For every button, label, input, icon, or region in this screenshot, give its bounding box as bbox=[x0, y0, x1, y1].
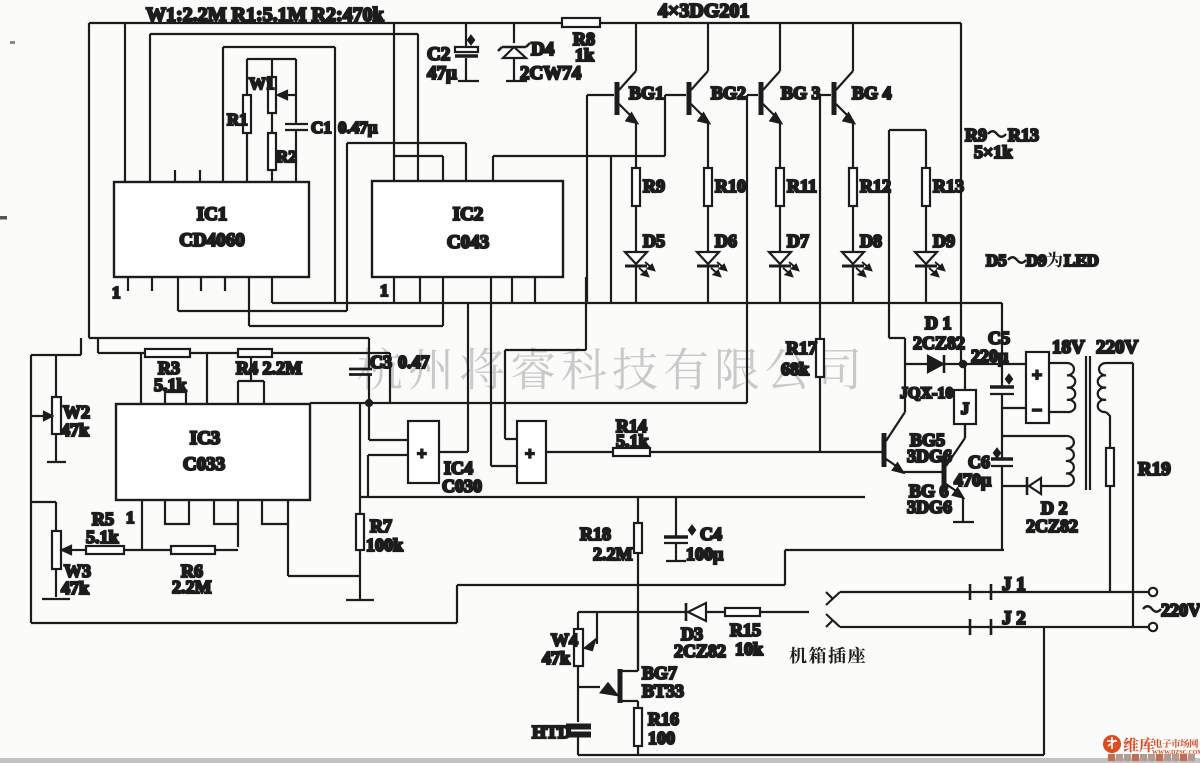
wire D5 to ground bus bbox=[635, 265, 637, 303]
LED D9 bbox=[915, 252, 937, 264]
wire BG7 lower base bbox=[622, 701, 638, 708]
svg-text:R13: R13 bbox=[1008, 125, 1039, 145]
wire R13 to D9 bbox=[925, 206, 927, 252]
diode D2 bbox=[1026, 477, 1029, 495]
bottom bus y755 bbox=[578, 754, 1044, 756]
zener diode D4 bbox=[498, 43, 530, 51]
wire R15 to socket pin bbox=[760, 611, 809, 613]
svg-text:D8: D8 bbox=[860, 231, 882, 251]
transistor BG1 bbox=[615, 82, 620, 115]
transistor Q7 (BG7 BT33) bbox=[618, 669, 623, 703]
svg-text:C1: C1 bbox=[311, 118, 332, 137]
wire R1 bottom lead to IC1 bbox=[246, 133, 248, 182]
wire C5 to bridge bottom bbox=[1002, 407, 1026, 409]
logo 维库电子市场网 bbox=[1103, 735, 1200, 761]
wire y143 left leg down to staircase bbox=[346, 143, 348, 311]
bus left riser bbox=[271, 291, 273, 303]
svg-text:5.1k: 5.1k bbox=[86, 527, 119, 547]
resistor R14 bbox=[613, 448, 650, 456]
svg-text:R15: R15 bbox=[730, 620, 761, 640]
svg-text:D 1: D 1 bbox=[925, 313, 952, 333]
wire y143 right leg to IC2 bbox=[465, 143, 467, 181]
transistor BG4 bbox=[832, 82, 837, 115]
capacitor C5 bbox=[990, 385, 1014, 388]
svg-text:BG2: BG2 bbox=[711, 83, 746, 103]
resistor R13 bbox=[922, 168, 930, 206]
op-amp U4b (IC4 comparator B) bbox=[517, 421, 546, 483]
IC U2 (IC2 C043) box bbox=[372, 181, 563, 277]
svg-text:100μ: 100μ bbox=[686, 544, 723, 564]
logo text weiku bbox=[1124, 737, 1139, 752]
wire R7 top column bbox=[359, 403, 361, 514]
svg-text:47k: 47k bbox=[542, 648, 570, 668]
pin stub of IC2 at x420 bbox=[419, 277, 421, 303]
svg-text:5×1k: 5×1k bbox=[974, 142, 1012, 162]
svg-text:2CW74: 2CW74 bbox=[520, 63, 582, 84]
label socket ji-xiang-cha-zuo bbox=[789, 647, 806, 664]
svg-text:R16: R16 bbox=[648, 709, 679, 729]
svg-text:C043: C043 bbox=[447, 232, 489, 253]
svg-text:10k: 10k bbox=[735, 639, 763, 659]
svg-text:220V: 220V bbox=[1161, 600, 1200, 620]
svg-text:1k: 1k bbox=[575, 45, 594, 65]
wire R1 top lead bbox=[246, 59, 248, 95]
wire D9 to ground bus bbox=[925, 265, 927, 303]
svg-text:−: − bbox=[1032, 400, 1042, 420]
wire y143 link line bbox=[347, 142, 466, 144]
pin stub of IC1 at x225 bbox=[224, 277, 226, 291]
resistor R10 bbox=[704, 168, 712, 206]
resistor R3 bbox=[145, 349, 190, 357]
resistor R19 bbox=[1106, 448, 1114, 486]
resistor R9 bbox=[632, 168, 640, 206]
wire W4 top lead bbox=[577, 612, 579, 629]
svg-text:R19: R19 bbox=[1138, 459, 1171, 480]
label character wei of D5-D9 LED note bbox=[1047, 252, 1063, 268]
svg-text:IC3: IC3 bbox=[190, 428, 221, 449]
svg-text:IC1: IC1 bbox=[197, 204, 228, 225]
potentiometer W2 bbox=[52, 397, 61, 434]
svg-text:C030: C030 bbox=[442, 476, 482, 496]
resistor R11 bbox=[776, 168, 784, 206]
svg-text:47k: 47k bbox=[61, 420, 89, 440]
svg-text:BT33: BT33 bbox=[642, 681, 684, 701]
svg-text:D7: D7 bbox=[787, 231, 809, 251]
wire bridge to top winding bbox=[1049, 363, 1067, 412]
contact marks of J1 bbox=[970, 584, 991, 600]
plus mark of C6 bbox=[994, 449, 1000, 457]
plus mark of C2 bbox=[468, 36, 474, 44]
resistor R16 bbox=[634, 708, 642, 746]
wire W1 wiper feed bbox=[295, 59, 297, 95]
pin stub of IC2 at x535 bbox=[534, 277, 536, 303]
staircase wire y326 bbox=[249, 277, 443, 326]
svg-text:D6: D6 bbox=[715, 231, 737, 251]
wire C6 bottom column bbox=[1001, 466, 1003, 550]
wire J2 drop to bottom bus bbox=[1043, 627, 1045, 755]
wire R5 to R6 bbox=[124, 549, 171, 551]
wire nested rail 3 bbox=[223, 46, 335, 48]
transistor Q6 (BG6 3DG6) bbox=[942, 458, 947, 492]
wire BG6 emitter down bbox=[962, 497, 964, 521]
resistor R4 bbox=[238, 349, 272, 357]
svg-text:BG 3: BG 3 bbox=[781, 83, 821, 103]
wire W1 cluster top bar bbox=[247, 58, 296, 60]
wire BG2 base horizontal bbox=[665, 94, 686, 96]
IC3 top pin loop bbox=[165, 392, 186, 404]
plug blade of J2 bbox=[826, 614, 840, 627]
svg-text:47μ: 47μ bbox=[427, 63, 457, 84]
svg-text:JQX-10: JQX-10 bbox=[900, 385, 953, 402]
label ~220V tilde bbox=[1143, 606, 1161, 612]
svg-text:LED: LED bbox=[1064, 251, 1099, 270]
bottom scan band bbox=[0, 758, 1200, 763]
LED D7 bbox=[769, 252, 791, 264]
wire top rail left segment bbox=[89, 22, 562, 24]
staircase wire y311 bbox=[178, 310, 347, 312]
svg-text:D5: D5 bbox=[643, 231, 665, 251]
wire R10 to D6 bbox=[707, 206, 709, 252]
wire relay to BG6 collector bbox=[964, 424, 966, 438]
transformer core bbox=[1086, 356, 1090, 490]
wire D2 line bbox=[1002, 485, 1066, 487]
wire C2 bottom lead bbox=[465, 58, 467, 80]
svg-text:0.47μ: 0.47μ bbox=[338, 118, 378, 137]
svg-text:R12: R12 bbox=[860, 176, 891, 196]
wire W2 top lead bbox=[55, 355, 57, 397]
svg-text:J 1: J 1 bbox=[1002, 574, 1026, 595]
plus mark of C5 bbox=[1006, 375, 1012, 383]
wire top rail right segment bbox=[600, 22, 961, 24]
wire R13 top bracket bbox=[889, 130, 926, 168]
wire C5 bottom lead bbox=[1001, 394, 1003, 408]
IC3 bottom pin loop 3 bbox=[262, 500, 288, 524]
wire R9 to D5 bbox=[635, 206, 637, 252]
svg-text:IC2: IC2 bbox=[453, 204, 484, 225]
wire x611 column to bus bbox=[610, 156, 612, 303]
capacitor C2 bbox=[455, 47, 478, 52]
wire BG7 upper base bbox=[622, 612, 638, 671]
wire BG1 base column x587 bbox=[586, 95, 588, 303]
wire W4 bottom lead bbox=[577, 666, 579, 722]
wire lower winding top link bbox=[1002, 435, 1066, 437]
resistor R18 bbox=[634, 523, 642, 553]
svg-text:+: + bbox=[525, 444, 535, 463]
resistor R2 bbox=[268, 133, 276, 170]
svg-text:D9: D9 bbox=[1026, 251, 1047, 270]
comparator B lower input drop x491 bbox=[491, 277, 517, 466]
wire R7 bottom lead bbox=[359, 550, 361, 599]
resistor R5 bbox=[86, 546, 124, 554]
watermark 杭州将睿科技有限公司 bbox=[358, 347, 401, 390]
junction dot at C3 node bbox=[366, 400, 372, 406]
wire left box edge x31 bbox=[30, 355, 32, 623]
pin stub of IC2 at x394 bbox=[393, 277, 395, 303]
wire vertical feed x125 to IC1 bbox=[124, 23, 126, 182]
capacitor C1 bbox=[285, 124, 308, 130]
wire C4 bottom lead bbox=[675, 543, 677, 560]
terminal bar under R7 bbox=[346, 599, 374, 601]
svg-text:W4: W4 bbox=[551, 630, 578, 650]
wire R11 to D7 bbox=[779, 206, 781, 252]
op-amp U4a (IC4 comparator A) bbox=[408, 421, 439, 483]
vertical feed x394 from top rail bbox=[393, 23, 395, 181]
wire outer left border bbox=[88, 23, 90, 338]
buzzer HTD bbox=[566, 724, 591, 730]
svg-text:5.1k: 5.1k bbox=[616, 431, 649, 451]
wire y550 link bbox=[785, 549, 1004, 551]
svg-text:C2: C2 bbox=[427, 44, 450, 65]
wire vertical x335 down to bus bbox=[334, 47, 336, 304]
wire R19 down to J1 line bbox=[1109, 486, 1111, 592]
logo text dianzishichangwang bbox=[1154, 739, 1162, 748]
wire relay coil top lead bbox=[964, 364, 966, 390]
wire W3 bottom lead bbox=[55, 569, 57, 597]
pin stub of IC1 at x152 bbox=[151, 277, 153, 291]
wire C1 to wiper node bbox=[295, 95, 297, 124]
wire y403 line IC3-top to BG3 base bbox=[310, 402, 747, 404]
transformer top secondary winding bbox=[1067, 363, 1075, 412]
svg-text:4×3DG201: 4×3DG201 bbox=[658, 0, 749, 22]
LED D5 bbox=[625, 252, 647, 264]
svg-text:220μ: 220μ bbox=[971, 346, 1008, 366]
wire nested rail 2 bbox=[150, 33, 418, 35]
wiper arrow of W1 bbox=[284, 94, 296, 96]
svg-text:100k: 100k bbox=[366, 535, 403, 555]
wire BG4 base horizontal bbox=[820, 94, 831, 96]
resistor R17 bbox=[816, 339, 824, 377]
resistor R12 bbox=[849, 168, 857, 206]
pin stub of IC1 at x128 bbox=[127, 277, 129, 291]
wire nested rail 3 left leg to IC1 bbox=[222, 47, 224, 182]
emitter arrow of BG7 bbox=[578, 686, 600, 688]
wire y156 link line bbox=[493, 155, 665, 157]
svg-text:0.47: 0.47 bbox=[398, 352, 430, 372]
svg-text:R5: R5 bbox=[92, 509, 114, 529]
wire D3 line bbox=[578, 611, 725, 613]
svg-text:W1: W1 bbox=[249, 74, 275, 93]
wire R6 right lead bbox=[215, 549, 238, 551]
svg-text:BG7: BG7 bbox=[642, 663, 677, 683]
IC3 top pin 2 bbox=[206, 353, 208, 404]
svg-text:C033: C033 bbox=[183, 454, 225, 475]
terminal bar under W3 bbox=[42, 598, 70, 600]
relay contact line J2 bbox=[840, 626, 1150, 628]
wire R16 bottom lead bbox=[637, 746, 639, 755]
pin stub of IC1 at x272 bbox=[271, 277, 273, 291]
wire C5/C6 column bbox=[1001, 408, 1003, 459]
terminal bar under D4 bbox=[506, 80, 527, 82]
svg-text:220V: 220V bbox=[1096, 337, 1139, 358]
wire C5 column from bus bbox=[1001, 303, 1003, 386]
svg-text:BG 4: BG 4 bbox=[852, 83, 892, 103]
capacitor C6 bbox=[991, 457, 1013, 460]
svg-text:D 2: D 2 bbox=[1041, 498, 1068, 518]
transformer lower secondary winding bbox=[1066, 436, 1074, 486]
bus y497 bbox=[360, 496, 865, 498]
wire primary bottom to R19 bbox=[1106, 412, 1110, 448]
transistor BG3 bbox=[759, 82, 764, 115]
potentiometer W3 bbox=[52, 531, 61, 569]
terminal circle upper bbox=[1149, 588, 1157, 596]
wire R18 column top bbox=[637, 497, 639, 523]
wire nested rail 3 right leg to IC2 bbox=[417, 34, 419, 181]
diode D1 bbox=[928, 356, 943, 372]
svg-text:100: 100 bbox=[648, 728, 675, 748]
wire C4 top lead bbox=[675, 497, 677, 536]
riser x98 bbox=[97, 338, 99, 353]
svg-text:3DG6: 3DG6 bbox=[907, 497, 952, 517]
bridge rectifier box bbox=[1026, 352, 1049, 423]
pin stub on IC1 top a bbox=[174, 170, 176, 182]
terminal bar under C2 bbox=[458, 80, 479, 82]
wire W2 bottom lead bbox=[55, 434, 57, 461]
potentiometer W1 bbox=[268, 77, 276, 113]
transistor BG2 bbox=[687, 82, 692, 115]
svg-text:C3: C3 bbox=[370, 352, 392, 372]
wire R18 column bottom bbox=[637, 553, 639, 671]
resistor R6 bbox=[171, 546, 215, 554]
svg-text:2.2M: 2.2M bbox=[172, 577, 212, 597]
wire bracket down to D1 line bbox=[889, 130, 905, 364]
wire y156 left leg to IC2 bbox=[492, 156, 494, 181]
wiper arrow of W4 bbox=[596, 612, 598, 644]
svg-text:C6: C6 bbox=[968, 452, 990, 472]
pin line IC1 to staircase 1 bbox=[177, 277, 179, 311]
R4 to IC3 pin loop bbox=[238, 357, 264, 404]
wire D8 to ground bus bbox=[852, 265, 854, 303]
wire R14 to BG5 base bbox=[650, 451, 882, 453]
resistor R1 bbox=[243, 95, 251, 133]
svg-text:R2: R2 bbox=[276, 147, 297, 166]
IC3 bottom pin loop 2 bbox=[214, 500, 238, 524]
wire BG3 base column x747 bbox=[746, 95, 748, 403]
svg-text:1: 1 bbox=[380, 281, 389, 300]
ground bus y303 bbox=[272, 302, 1002, 304]
svg-text:D4: D4 bbox=[531, 39, 555, 60]
svg-text:W2: W2 bbox=[63, 402, 90, 422]
capacitor C3 bbox=[349, 369, 372, 375]
bus y585 bbox=[457, 584, 785, 586]
junction dot D1 node bbox=[960, 361, 966, 367]
LED D8 bbox=[842, 252, 864, 264]
comparator A output riser x468 bbox=[467, 303, 469, 452]
svg-text:R10: R10 bbox=[715, 176, 746, 196]
wire D6 to ground bus bbox=[707, 265, 709, 303]
wiper arrow of W3 bbox=[70, 549, 86, 551]
comparator B upper input drop bbox=[505, 277, 586, 439]
wiper arrow of W2 bbox=[31, 415, 44, 417]
wire y338 line bbox=[89, 337, 369, 339]
wire R2 bottom lead to IC1 bbox=[271, 170, 273, 182]
wire W3 top link bbox=[31, 502, 56, 531]
IC U1 (IC1 CD4060) box bbox=[114, 182, 309, 277]
comparator A upper input bbox=[369, 403, 408, 440]
capacitor C4 bbox=[664, 535, 688, 538]
plus mark of C4 bbox=[689, 526, 695, 534]
wire W1 to R2 bbox=[271, 113, 273, 133]
wire C3 column bbox=[368, 338, 370, 403]
relay coil J (JQX-10) bbox=[954, 390, 976, 424]
wire y355 shelf bbox=[31, 338, 81, 355]
pin stub of IC2 at x512 bbox=[511, 277, 513, 303]
wire BG3 base horizontal bbox=[747, 94, 758, 96]
svg-text:18V: 18V bbox=[1052, 337, 1085, 358]
IC U3 (IC3 C033) box bbox=[116, 404, 310, 500]
svg-text:R4 2.2M: R4 2.2M bbox=[236, 358, 302, 378]
wire R3/R4 line bbox=[98, 353, 390, 403]
terminal bar under C4 bbox=[666, 560, 686, 562]
svg-text:R11: R11 bbox=[787, 176, 817, 196]
wire C1 bottom lead to IC1 bbox=[295, 130, 297, 182]
potentiometer W4 bbox=[574, 629, 583, 666]
resistor R8 bbox=[562, 18, 600, 27]
resistor R7 bbox=[356, 514, 364, 550]
bus y585 right riser bbox=[784, 550, 786, 585]
wire right rail down to D1 node bbox=[960, 23, 962, 364]
svg-text:1: 1 bbox=[112, 283, 121, 302]
svg-text:470μ: 470μ bbox=[954, 470, 991, 490]
diode D3 bbox=[685, 603, 688, 621]
LED D6 bbox=[697, 252, 719, 264]
svg-text:J 2: J 2 bbox=[1002, 608, 1026, 629]
contact marks of J2 bbox=[970, 619, 991, 635]
svg-text:47k: 47k bbox=[61, 578, 89, 598]
wire BG2 base drop bbox=[664, 95, 666, 156]
pin loop on IC2 top bbox=[394, 156, 443, 181]
svg-text:R7: R7 bbox=[370, 516, 392, 536]
transistor Q5 (BG5 3DG6) bbox=[882, 433, 887, 467]
plug blade of J1 bbox=[826, 592, 840, 605]
svg-text:2.2M: 2.2M bbox=[593, 544, 633, 564]
svg-text:68k: 68k bbox=[781, 359, 809, 379]
loop3 drop to R7 line bbox=[288, 524, 360, 576]
resistor R15 bbox=[725, 608, 760, 616]
comparator A output bbox=[439, 451, 468, 453]
R6 right riser bbox=[237, 524, 239, 547]
wire BG5 emitter to BG6 base bbox=[903, 471, 942, 473]
svg-text:IC4: IC4 bbox=[444, 458, 473, 478]
wire primary top to right rail bbox=[1106, 363, 1133, 627]
scan artifact left edge bbox=[0, 216, 7, 220]
wire BG1 base feed horizontal bbox=[587, 94, 614, 96]
svg-text:J: J bbox=[961, 399, 970, 418]
svg-text:2CZ82: 2CZ82 bbox=[1026, 516, 1078, 536]
comparator A lower input bbox=[368, 455, 408, 497]
pin line IC1 to staircase 2 bbox=[248, 277, 250, 326]
wire R12 to D8 bbox=[852, 206, 854, 252]
svg-text:C4: C4 bbox=[700, 524, 722, 544]
terminal circle lower bbox=[1149, 623, 1157, 631]
terminal bar under W2 bbox=[47, 461, 66, 463]
svg-text:+: + bbox=[417, 444, 427, 463]
wire D1 line bbox=[905, 363, 1026, 365]
wire D7 to ground bus bbox=[779, 265, 781, 303]
svg-text:C5: C5 bbox=[988, 328, 1010, 348]
wire C2 top lead bbox=[465, 23, 467, 47]
pin stub on IC1 top b bbox=[199, 170, 201, 182]
wire HTD bottom lead bbox=[577, 737, 579, 755]
wire D4 bottom lead bbox=[513, 58, 515, 80]
pin stub of IC1 at x201 bbox=[200, 277, 202, 291]
svg-text:R18: R18 bbox=[580, 524, 611, 544]
wire W1 top lead bbox=[271, 59, 273, 77]
svg-text:R13: R13 bbox=[933, 176, 964, 196]
wire nested rail 2 left leg to IC1 bbox=[149, 34, 151, 182]
svg-text:BG1: BG1 bbox=[629, 83, 664, 103]
svg-text:R9: R9 bbox=[643, 176, 665, 196]
bus y585 left drop bbox=[456, 585, 458, 623]
